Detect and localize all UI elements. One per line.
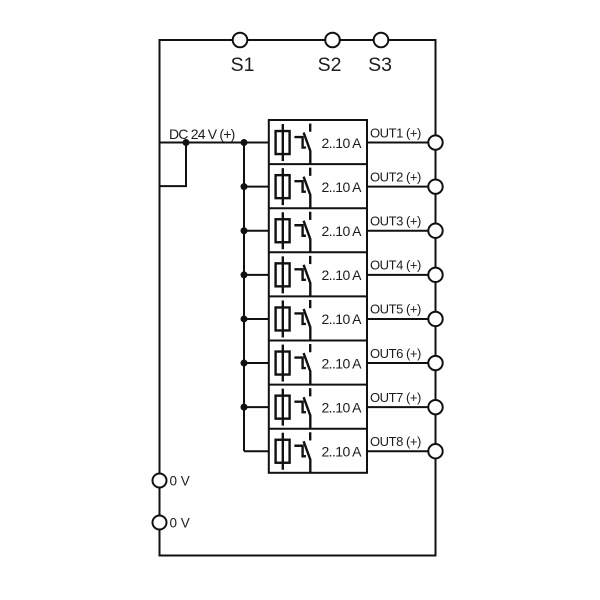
fuse F7 body	[276, 396, 290, 419]
svg-text:OUT3 (+): OUT3 (+)	[370, 213, 421, 228]
fuse F1 body	[276, 131, 290, 154]
fuse F7 lead	[282, 389, 284, 426]
breaker S5 latch hook	[294, 313, 306, 324]
fuse F1 lead	[282, 124, 284, 161]
svg-text:OUT4 (+): OUT4 (+)	[370, 258, 421, 273]
svg-text:OUT8 (+): OUT8 (+)	[370, 434, 421, 449]
svg-text:2..10 A: 2..10 A	[322, 311, 363, 327]
divider between channel 4 and 5	[269, 295, 367, 297]
breaker S2 fixed contact	[309, 168, 311, 176]
divider between channel 7 and 8	[269, 428, 367, 430]
junction: feed loop	[183, 139, 190, 146]
wire: outer supply frame	[160, 40, 436, 556]
breaker S5 blade	[304, 309, 311, 341]
wire: branch to channel 2	[244, 186, 269, 188]
breaker S5 fixed contact	[309, 300, 311, 308]
svg-text:DC 24 V (+): DC 24 V (+)	[169, 126, 235, 142]
breaker S6 fixed contact	[309, 344, 311, 352]
breaker S4 fixed contact	[309, 256, 311, 264]
wire: output OUT6	[367, 362, 436, 364]
wire: branch to channel 5	[244, 318, 269, 320]
wire: DC 24 V feed	[160, 142, 269, 144]
breaker S8 fixed contact	[309, 432, 311, 440]
svg-text:2..10 A: 2..10 A	[322, 399, 363, 415]
svg-text:0 V: 0 V	[170, 515, 190, 530]
terminal 0 V #1	[153, 474, 167, 488]
terminal OUT2	[428, 179, 442, 193]
wire: output OUT4	[367, 274, 436, 276]
terminal OUT3	[428, 224, 442, 238]
wire: output OUT3	[367, 230, 436, 232]
wire: branch to channel 3	[244, 230, 269, 232]
svg-text:OUT6 (+): OUT6 (+)	[370, 346, 421, 361]
svg-text:OUT1 (+): OUT1 (+)	[370, 125, 421, 140]
breaker S6 latch hook	[294, 358, 306, 369]
wire: + distribution bus	[243, 143, 245, 452]
breaker S7 blade	[304, 397, 311, 429]
fuse F6 lead	[282, 345, 284, 382]
fuse F6 body	[276, 352, 290, 375]
wire: feed loop stub	[160, 143, 187, 187]
fuse F5 lead	[282, 300, 284, 337]
fuse F3 lead	[282, 212, 284, 249]
fuse F4 lead	[282, 256, 284, 293]
breaker S8 blade	[304, 441, 311, 473]
fuse F4 body	[276, 263, 290, 286]
terminal OUT5	[428, 312, 442, 326]
svg-text:0 V: 0 V	[170, 473, 190, 488]
terminal OUT8	[428, 444, 442, 458]
breaker S7 latch hook	[294, 402, 306, 413]
divider between channel 6 and 7	[269, 384, 367, 386]
terminal OUT4	[428, 268, 442, 282]
wire: branch to channel 7	[244, 406, 269, 408]
fuse F3 body	[276, 219, 290, 242]
terminal S1	[233, 33, 248, 48]
terminal S3	[374, 33, 389, 48]
junction: bus node row 6	[241, 360, 248, 367]
wire: branch to channel 4	[244, 274, 269, 276]
fuse F2 lead	[282, 168, 284, 205]
breaker S1 blade	[304, 133, 311, 165]
junction: bus node row 1	[241, 139, 248, 146]
terminal OUT1	[428, 135, 442, 149]
fuse F8 lead	[282, 433, 284, 470]
divider between channel 1 and 2	[269, 163, 367, 165]
divider between channel 5 and 6	[269, 340, 367, 342]
breaker S1 latch hook	[294, 137, 306, 148]
svg-text:OUT7 (+): OUT7 (+)	[370, 390, 421, 405]
junction: bus node row 4	[241, 271, 248, 278]
breaker S7 fixed contact	[309, 388, 311, 396]
breaker S2 latch hook	[294, 181, 306, 192]
junction: bus node row 5	[241, 315, 248, 322]
wire: output OUT7	[367, 406, 436, 408]
terminal 0 V #2	[153, 516, 167, 530]
svg-text:2..10 A: 2..10 A	[322, 267, 363, 283]
breaker S2 blade	[304, 177, 311, 209]
fuse F2 body	[276, 175, 290, 198]
breaker S4 blade	[304, 265, 311, 297]
wire: branch to channel 6	[244, 362, 269, 364]
breaker S6 blade	[304, 353, 311, 385]
svg-text:2..10 A: 2..10 A	[322, 135, 363, 151]
wire: branch to channel 8	[244, 450, 269, 452]
svg-text:2..10 A: 2..10 A	[322, 179, 363, 195]
breaker S3 blade	[304, 221, 311, 253]
breaker S4 latch hook	[294, 269, 306, 280]
wire: output OUT5	[367, 318, 436, 320]
terminal OUT7	[428, 400, 442, 414]
module block outline	[269, 120, 367, 473]
svg-text:S2: S2	[318, 54, 342, 76]
junction: bus node row 2	[241, 183, 248, 190]
fuse F5 body	[276, 307, 290, 330]
wire: output OUT8	[367, 450, 436, 452]
fuse F8 body	[276, 440, 290, 463]
svg-text:2..10 A: 2..10 A	[322, 355, 363, 371]
svg-text:2..10 A: 2..10 A	[322, 443, 363, 459]
wire: output OUT1	[367, 142, 436, 144]
breaker S3 fixed contact	[309, 212, 311, 220]
wire: output OUT2	[367, 186, 436, 188]
svg-text:S1: S1	[231, 54, 255, 76]
svg-text:2..10 A: 2..10 A	[322, 223, 363, 239]
terminal S2	[325, 33, 340, 48]
junction: bus node row 7	[241, 404, 248, 411]
svg-text:OUT5 (+): OUT5 (+)	[370, 302, 421, 317]
breaker S3 latch hook	[294, 225, 306, 236]
junction: bus node row 3	[241, 227, 248, 234]
terminal OUT6	[428, 356, 442, 370]
svg-text:OUT2 (+): OUT2 (+)	[370, 169, 421, 184]
svg-text:S3: S3	[368, 54, 392, 76]
breaker S8 latch hook	[294, 446, 306, 457]
breaker S1 fixed contact	[309, 124, 311, 132]
divider between channel 2 and 3	[269, 207, 367, 209]
divider between channel 3 and 4	[269, 251, 367, 253]
